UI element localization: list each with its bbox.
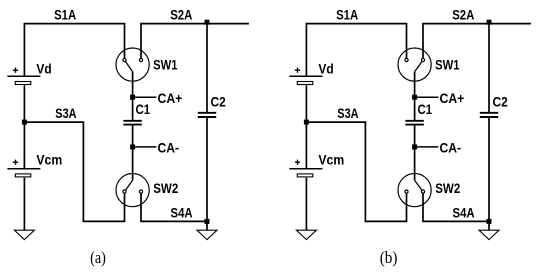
circuit (a): wire S4A (SW2 right pin to C2 bottom junction) <box>141 193 207 221</box>
circuit (a): capacitor C2 top plate <box>198 112 216 114</box>
circuit (a): junction node S2A/C2 <box>205 20 210 25</box>
circuit (b): wire C1 bottom to SW2 pole (CA- net) <box>414 126 416 181</box>
circuit (b): wire S3A (junction to SW2 left pin) <box>309 122 407 221</box>
circuit (a): switch SW1 body <box>116 48 149 81</box>
svg-text:S2A: S2A <box>452 8 474 23</box>
circuit (b): node CA- stub <box>415 146 439 148</box>
circuit (b): capacitor C2 top plate <box>480 112 498 114</box>
svg-text:S4A: S4A <box>171 206 193 221</box>
circuit (a): ground symbol (right) <box>197 230 217 239</box>
circuit (a): wire C2 bottom lead <box>206 118 208 221</box>
circuit (a): junction node S3A <box>22 120 27 125</box>
svg-text:S3A: S3A <box>337 106 358 121</box>
circuit (b): wire junction to ground <box>488 221 490 230</box>
circuit (b): node CA+ stub <box>415 96 439 98</box>
circuit (a): wire junction to ground <box>206 221 208 230</box>
circuit (a): wire S3A (junction to SW2 left pin) <box>27 122 125 221</box>
circuit (b): wire S1A (Vd+ rail to SW1 left pin) <box>306 24 406 76</box>
circuit (a): battery Vcm plus sign <box>13 161 18 163</box>
svg-text:C2: C2 <box>493 94 509 109</box>
svg-text:S2A: S2A <box>170 8 192 23</box>
circuit (b): switch SW1 body <box>398 48 431 81</box>
circuit (b): capacitor C1 top plate <box>405 120 423 122</box>
circuit (b): battery Vcm plus sign <box>295 161 300 163</box>
circuit (b): battery Vd plus sign <box>295 69 300 71</box>
svg-text:SW2: SW2 <box>435 181 460 196</box>
circuit (b): wire S2A rail (SW1 right pin to C2 top junction) <box>423 24 531 59</box>
circuit (a): wire S1A (Vd+ rail to SW1 left pin) <box>24 24 124 76</box>
circuit (b): wire S4A (SW2 right pin to C2 bottom junction) <box>423 193 489 221</box>
circuit (b): junction node S3A <box>304 120 309 125</box>
circuit (a): wire S2A rail (SW1 right pin to C2 top junction) <box>141 24 249 59</box>
svg-text:SW1: SW1 <box>435 58 460 73</box>
circuit (b): node CA- junction dot <box>412 144 417 149</box>
circuit (a): switch SW1 lever (left pin closed) <box>126 62 133 72</box>
circuit (b): ground symbol (left) <box>296 230 316 239</box>
circuit (a): capacitor C1 top plate <box>123 120 141 122</box>
svg-text:Vcm: Vcm <box>318 153 344 168</box>
svg-text:CA+: CA+ <box>440 91 465 106</box>
circuit (a): battery Vcm negative plate <box>15 174 30 177</box>
circuit (a): switch SW1 right pin <box>139 58 142 61</box>
circuit (a): battery Vd plus sign <box>13 69 18 71</box>
circuit (b): switch SW1 lever (right pin closed) <box>415 62 422 72</box>
circuit (a): switch SW1 left pin <box>123 58 126 61</box>
circuit (a): node CA+ junction dot <box>130 95 135 100</box>
circuit (b): switch SW2 right pin <box>421 190 424 193</box>
circuit (b): capacitor C2 bottom plate <box>480 116 498 118</box>
circuit (b): wire Vcm- to ground <box>305 178 307 230</box>
circuit (a): battery Vcm positive plate <box>7 168 40 170</box>
circuit (a): wire Vd- to S3A junction to Vcm+ <box>23 85 25 168</box>
circuit (b): switch SW1 left pin <box>405 58 408 61</box>
svg-text:SW1: SW1 <box>153 58 178 73</box>
circuit (a): switch SW2 lever (left pin closed) <box>126 180 133 190</box>
svg-text:CA+: CA+ <box>158 91 183 106</box>
circuit (b): battery Vd positive plate <box>289 75 322 77</box>
circuit (a): battery Vd positive plate <box>7 75 40 77</box>
circuit (b): wire C2 bottom lead <box>488 118 490 221</box>
circuit (b): node CA+ junction dot <box>412 95 417 100</box>
circuit (b): ground symbol (right) <box>479 230 499 239</box>
svg-text:SW2: SW2 <box>153 181 178 196</box>
svg-text:(b): (b) <box>380 248 398 267</box>
svg-text:S1A: S1A <box>54 8 76 23</box>
svg-text:S4A: S4A <box>453 206 475 221</box>
circuit (a): wire SW1 pole to C1 top (CA+ net) <box>132 72 134 120</box>
svg-text:Vd: Vd <box>36 62 51 77</box>
circuit (b): wire C2 top lead <box>488 24 490 112</box>
svg-text:S1A: S1A <box>336 8 358 23</box>
circuit (b): switch SW2 left pin <box>405 190 408 193</box>
circuit (a): wire C1 bottom to SW2 pole (CA- net) <box>132 126 134 181</box>
svg-text:C1: C1 <box>418 102 433 117</box>
circuit (a): ground symbol (left) <box>14 230 34 239</box>
circuit (a): wire C2 top lead <box>206 24 208 112</box>
circuit (b): wire SW1 pole to C1 top (CA+ net) <box>414 72 416 120</box>
circuit (a): switch SW2 left pin <box>123 190 126 193</box>
circuit (a): battery Vd negative plate <box>15 82 30 85</box>
circuit (b): junction node S2A/C2 <box>487 20 492 25</box>
circuit (b): battery Vcm positive plate <box>289 168 322 170</box>
circuit (b): wire Vd- to S3A junction to Vcm+ <box>305 85 307 168</box>
circuit (a): capacitor C2 bottom plate <box>198 116 216 118</box>
circuit (b): battery Vd negative plate <box>297 82 313 85</box>
svg-text:C1: C1 <box>136 102 151 117</box>
svg-text:(a): (a) <box>90 248 106 267</box>
circuit (a): switch SW2 body <box>116 174 149 207</box>
svg-text:Vcm: Vcm <box>36 153 62 168</box>
svg-text:Vd: Vd <box>318 62 333 77</box>
svg-text:C2: C2 <box>211 94 227 109</box>
circuit (b): junction node S4A/C2/ground <box>487 219 492 224</box>
circuit (a): switch SW2 right pin <box>139 190 142 193</box>
circuit (a): junction node S4A/C2/ground <box>205 219 210 224</box>
circuit (b): battery Vcm negative plate <box>297 174 313 177</box>
circuit (a): node CA+ stub <box>133 96 157 98</box>
circuit (a): node CA- stub <box>133 146 157 148</box>
circuit (b): capacitor C1 bottom plate <box>405 124 423 126</box>
circuit (a): node CA- junction dot <box>130 144 135 149</box>
svg-text:CA-: CA- <box>158 141 180 156</box>
circuit (b): switch SW1 right pin <box>421 58 424 61</box>
circuit (b): switch SW2 body <box>398 174 431 207</box>
svg-text:CA-: CA- <box>440 141 462 156</box>
circuit (a): capacitor C1 bottom plate <box>123 124 141 126</box>
svg-text:S3A: S3A <box>55 106 76 121</box>
circuit (a): wire Vcm- to ground <box>23 178 25 230</box>
circuit (b): switch SW2 lever (right pin closed) <box>415 180 422 190</box>
